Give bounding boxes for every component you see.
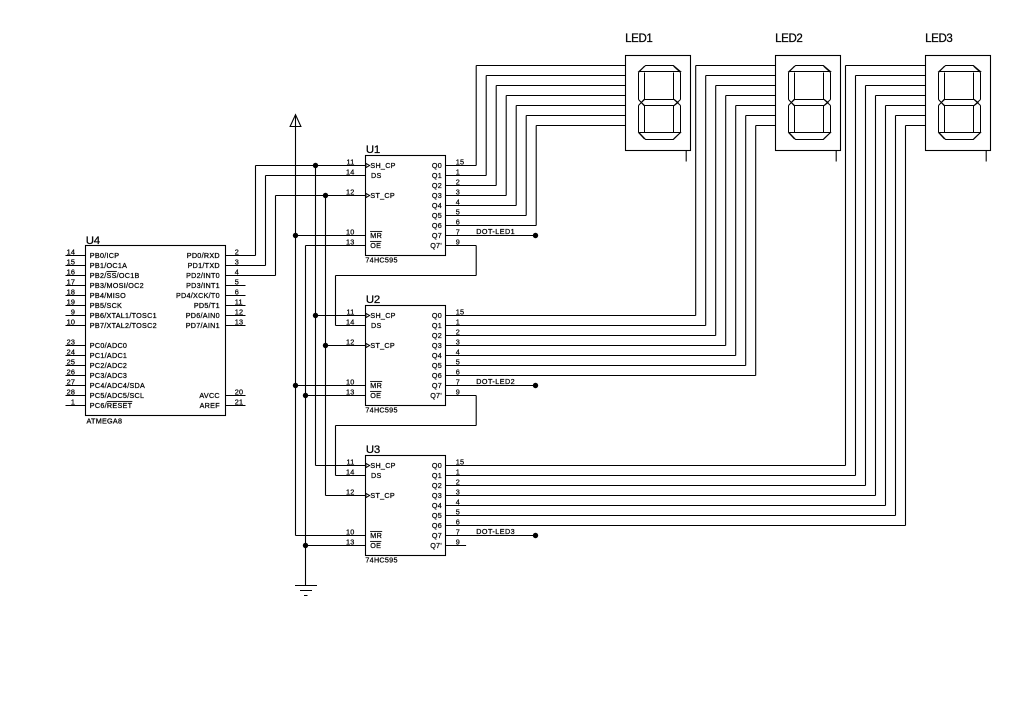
svg-text:PD0/RXD: PD0/RXD [187,251,220,260]
svg-text:Q6: Q6 [432,221,442,230]
svg-text:9: 9 [456,237,460,246]
svg-text:U3: U3 [366,444,380,456]
svg-text:DS: DS [371,471,382,480]
svg-text:1: 1 [456,467,460,476]
svg-text:24: 24 [67,347,76,356]
svg-text:19: 19 [67,297,76,306]
svg-text:Q1: Q1 [432,171,442,180]
svg-text:Q1: Q1 [432,321,442,330]
svg-text:28: 28 [67,387,76,396]
svg-text:DOT-LED1: DOT-LED1 [476,227,515,236]
svg-text:9: 9 [71,307,75,316]
svg-text:7: 7 [456,527,460,536]
svg-text:PB7/XTAL2/TOSC2: PB7/XTAL2/TOSC2 [90,321,157,330]
svg-text:13: 13 [346,387,355,396]
svg-text:13: 13 [346,537,355,546]
svg-text:12: 12 [346,487,355,496]
svg-text:LED3: LED3 [925,33,952,45]
svg-text:PD7/AIN1: PD7/AIN1 [186,321,220,330]
svg-text:11: 11 [347,307,355,316]
svg-text:20: 20 [235,387,244,396]
svg-text:Q2: Q2 [432,331,442,340]
svg-text:6: 6 [456,517,460,526]
svg-text:LED1: LED1 [625,33,652,45]
svg-text:PB1/OC1A: PB1/OC1A [90,261,127,270]
svg-text:2: 2 [235,247,239,256]
svg-text:PD4/XCK/T0: PD4/XCK/T0 [176,291,220,300]
svg-text:15: 15 [456,157,465,166]
svg-text:PD1/TXD: PD1/TXD [188,261,220,270]
svg-text:Q5: Q5 [432,511,442,520]
svg-text:10: 10 [346,377,355,386]
svg-text:PC3/ADC3: PC3/ADC3 [90,371,127,380]
svg-text:Q5: Q5 [432,211,442,220]
svg-text:26: 26 [67,367,76,376]
svg-text:Q3: Q3 [432,191,442,200]
svg-text:10: 10 [67,317,76,326]
svg-text:11: 11 [347,157,355,166]
svg-text:5: 5 [456,207,460,216]
svg-text:DS: DS [371,171,382,180]
svg-text:15: 15 [67,257,76,266]
svg-text:PC0/ADC0: PC0/ADC0 [90,341,127,350]
svg-text:PD3/INT1: PD3/INT1 [186,281,220,290]
svg-text:Q7: Q7 [432,381,442,390]
svg-text:10: 10 [346,227,355,236]
svg-text:74HC595: 74HC595 [365,405,397,414]
svg-text:9: 9 [456,387,460,396]
svg-text:PD6/AIN0: PD6/AIN0 [186,311,220,320]
svg-text:MR: MR [370,531,382,540]
svg-text:Q2: Q2 [432,181,442,190]
svg-text:Q7: Q7 [432,231,442,240]
svg-text:U2: U2 [366,294,380,306]
svg-text:16: 16 [67,267,76,276]
svg-text:U4: U4 [86,235,100,247]
svg-text:17: 17 [67,277,76,286]
svg-text:SH_CP: SH_CP [370,311,395,320]
svg-text:12: 12 [235,307,244,316]
svg-text:14: 14 [346,167,355,176]
svg-text:Q3: Q3 [432,491,442,500]
svg-text:Q6: Q6 [432,371,442,380]
svg-text:OE: OE [370,241,381,250]
svg-text:PC4/ADC4/SDA: PC4/ADC4/SDA [90,381,145,390]
svg-text:LED2: LED2 [775,33,802,45]
svg-text:PD5/T1: PD5/T1 [194,301,220,310]
svg-text:PB0/ICP: PB0/ICP [90,251,120,260]
svg-text:74HC595: 74HC595 [365,555,397,564]
svg-text:Q4: Q4 [432,351,442,360]
svg-text:ST_CP: ST_CP [370,341,395,350]
svg-text:3: 3 [456,487,460,496]
svg-text:PC1/ADC1: PC1/ADC1 [90,351,127,360]
svg-text:14: 14 [67,247,76,256]
svg-text:PB6/XTAL1/TOSC1: PB6/XTAL1/TOSC1 [90,311,157,320]
svg-text:Q4: Q4 [432,201,442,210]
svg-text:4: 4 [456,347,460,356]
svg-text:74HC595: 74HC595 [365,255,397,264]
svg-text:15: 15 [456,457,465,466]
svg-text:SH_CP: SH_CP [370,461,395,470]
svg-text:PB2/SS/OC1B: PB2/SS/OC1B [90,271,140,280]
svg-text:13: 13 [235,317,244,326]
svg-text:3: 3 [235,257,239,266]
svg-text:14: 14 [346,467,355,476]
svg-text:Q6: Q6 [432,521,442,530]
svg-text:Q7': Q7' [430,241,442,250]
svg-text:5: 5 [456,357,460,366]
svg-text:Q7: Q7 [432,531,442,540]
svg-text:Q5: Q5 [432,361,442,370]
svg-text:6: 6 [456,367,460,376]
svg-text:Q2: Q2 [432,481,442,490]
svg-text:11: 11 [347,457,355,466]
svg-text:Q7': Q7' [430,391,442,400]
svg-text:1: 1 [456,167,460,176]
svg-text:6: 6 [456,217,460,226]
svg-text:1: 1 [71,397,75,406]
svg-text:U1: U1 [366,144,380,156]
svg-text:PB5/SCK: PB5/SCK [90,301,122,310]
svg-text:3: 3 [456,187,460,196]
svg-text:6: 6 [235,287,239,296]
svg-text:4: 4 [456,497,460,506]
svg-text:ST_CP: ST_CP [370,191,395,200]
svg-text:PB3/MOSI/OC2: PB3/MOSI/OC2 [90,281,144,290]
svg-text:ATMEGA8: ATMEGA8 [87,416,123,425]
svg-text:PC5/ADC5/SCL: PC5/ADC5/SCL [90,391,145,400]
svg-text:PC2/ADC2: PC2/ADC2 [90,361,127,370]
svg-text:Q7': Q7' [430,541,442,550]
svg-text:2: 2 [456,477,460,486]
svg-text:12: 12 [346,187,355,196]
svg-text:DS: DS [371,321,382,330]
svg-text:2: 2 [456,327,460,336]
svg-text:DOT-LED3: DOT-LED3 [476,527,515,536]
svg-text:14: 14 [346,317,355,326]
svg-text:10: 10 [346,527,355,536]
svg-text:Q0: Q0 [432,461,442,470]
svg-text:25: 25 [67,357,76,366]
svg-text:13: 13 [346,237,355,246]
svg-text:OE: OE [370,541,381,550]
svg-text:3: 3 [456,337,460,346]
svg-text:21: 21 [235,397,244,406]
svg-text:MR: MR [370,381,382,390]
svg-text:4: 4 [456,197,460,206]
svg-text:DOT-LED2: DOT-LED2 [476,377,515,386]
svg-text:SH_CP: SH_CP [370,161,395,170]
svg-text:1: 1 [456,317,460,326]
svg-text:AREF: AREF [200,401,221,410]
svg-text:5: 5 [456,507,460,516]
svg-text:PC6/RESET: PC6/RESET [90,401,133,410]
svg-text:4: 4 [235,267,239,276]
svg-text:11: 11 [235,297,243,306]
svg-text:7: 7 [456,377,460,386]
svg-text:23: 23 [67,337,76,346]
svg-text:2: 2 [456,177,460,186]
svg-text:PB4/MISO: PB4/MISO [90,291,126,300]
svg-text:Q1: Q1 [432,471,442,480]
svg-text:15: 15 [456,307,465,316]
svg-text:12: 12 [346,337,355,346]
svg-text:OE: OE [370,391,381,400]
svg-text:18: 18 [67,287,76,296]
svg-text:27: 27 [67,377,76,386]
svg-text:7: 7 [456,227,460,236]
svg-text:MR: MR [370,231,382,240]
svg-text:PD2/INT0: PD2/INT0 [186,271,220,280]
svg-text:AVCC: AVCC [199,391,220,400]
svg-text:Q0: Q0 [432,161,442,170]
svg-text:5: 5 [235,277,239,286]
svg-text:Q3: Q3 [432,341,442,350]
svg-text:Q0: Q0 [432,311,442,320]
svg-text:9: 9 [456,537,460,546]
svg-text:Q4: Q4 [432,501,442,510]
svg-text:ST_CP: ST_CP [370,491,395,500]
